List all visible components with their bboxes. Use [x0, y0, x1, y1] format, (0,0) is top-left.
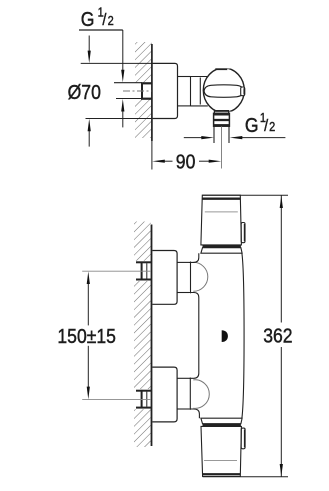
bottom union dome [193, 380, 209, 409]
top union centerline [82, 270, 151, 272]
top arrow (outside, pointing down) [88, 36, 90, 54]
bottom shoulder [201, 418, 242, 424]
362 dimension [202, 195, 298, 477]
top escutcheon [152, 251, 177, 305]
svg-text:/: / [102, 11, 107, 29]
svg-text:/: / [264, 117, 269, 135]
top union nut [177, 261, 189, 263]
bottom arrow (outside, pointing up) [88, 129, 90, 147]
economy button mark [222, 330, 228, 342]
flat chord bottom [214, 110, 229, 112]
body ring (top view) [191, 76, 208, 78]
top knob tab [241, 223, 245, 243]
white cutouts for concealed unions [133, 261, 151, 281]
escutcheon bottom edge extension (Ø70) [86, 118, 153, 120]
Ø70 dimension [68, 36, 101, 147]
outlet pipe centerline [221, 126, 223, 168]
supply pipe behind wall [114, 82, 142, 84]
outlet pipe G1/2 [213, 126, 215, 143]
union nut (top view) [178, 76, 191, 78]
leader arrow from below [122, 108, 124, 127]
bottom escutcheon [152, 367, 177, 422]
svg-text:362: 362 [263, 324, 292, 346]
body left edge: bottom nut to shoulder [189, 409, 199, 418]
top shoulder [201, 248, 242, 254]
bottom union centerline [82, 398, 151, 400]
valve body end view (circle) [203, 68, 244, 113]
bottom union socket behind wall [136, 390, 151, 392]
label underline [79, 29, 123, 31]
leader to inlet pipe (down arrow) [122, 30, 124, 72]
knob base dark band (bottom) [203, 424, 241, 427]
knob base dark band (top) [203, 245, 241, 248]
bottom knob bottom thick line [203, 473, 240, 475]
wall hatch (top view) [135, 42, 152, 138]
svg-text:2: 2 [108, 14, 114, 28]
top union dome [193, 262, 208, 291]
bottom union nut [177, 377, 189, 379]
body left edge: top nut to bottom nut [189, 293, 199, 379]
bottom knob faint line [204, 460, 237, 462]
handle grip lens [204, 85, 244, 98]
escutcheon top edge extension (Ø70) [81, 62, 153, 64]
svg-text:G: G [245, 114, 259, 136]
G1/2 label (outlet) [184, 111, 286, 139]
top knob faint line [205, 211, 238, 213]
threaded socket in wall [141, 82, 152, 84]
bottom knob outline [201, 426, 241, 476]
dim line upper segment, arrow up [87, 280, 89, 325]
wall hatch (bottom view) [134, 222, 151, 448]
wall line (bottom view) [151, 225, 153, 447]
top knob outline [201, 195, 242, 245]
dim line left segment with right-pointing arrow [184, 137, 202, 139]
svg-text:Ø70: Ø70 [68, 81, 101, 103]
svg-text:150±15: 150±15 [57, 325, 116, 347]
body left edge: shoulder to top nut [189, 253, 199, 262]
grip end tab [241, 87, 245, 96]
dim line [163, 160, 173, 162]
shower outlet fitting below circle [213, 110, 215, 113]
G1/2 label (top) [79, 6, 124, 128]
svg-text:90: 90 [176, 150, 196, 172]
flat chord top [215, 68, 227, 70]
bottom knob tab [241, 428, 245, 449]
top knob top thick line [203, 198, 241, 200]
wall extension line [151, 141, 153, 170]
dim line lower segment, arrow down [87, 346, 89, 391]
bottom extension line [203, 476, 288, 478]
supply pipe white cutout through wall [113, 83, 152, 99]
90 dimension [152, 141, 221, 173]
dim line [280, 195, 282, 322]
dim line right segment with left-pointing arrow [242, 137, 286, 139]
escutcheon (top view) [153, 63, 178, 118]
top union socket behind wall [136, 261, 151, 263]
svg-text:G: G [81, 8, 95, 30]
wall line (top view) [151, 44, 153, 141]
body barrel right edge [242, 253, 244, 418]
top extension line [202, 194, 288, 196]
pipe centerline (top view) [123, 90, 152, 92]
svg-text:2: 2 [269, 121, 275, 135]
150±15 dimension [57, 271, 116, 399]
